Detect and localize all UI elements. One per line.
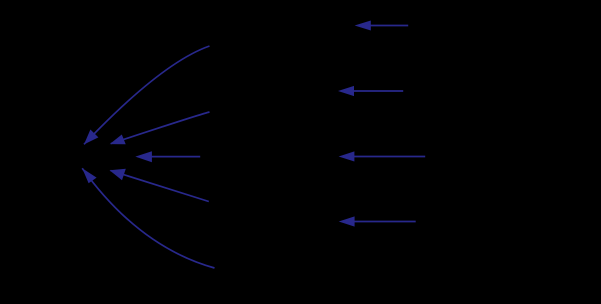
- wire arrow 2 (upper diagonal connector): [111, 112, 210, 144]
- arrowhead 5: [82, 168, 96, 183]
- arrowhead C: [339, 151, 355, 161]
- wire arrow 4 (lower diagonal connector): [111, 171, 209, 202]
- arrowhead 1: [84, 130, 98, 145]
- wire arrow 3 (middle horizontal connector): [150, 156, 200, 158]
- arrowhead 3: [135, 151, 152, 162]
- wire curve arrow 1 (top curved connector): [84, 46, 210, 144]
- arrowhead A: [355, 21, 371, 31]
- wire arrow B (right column, row 2): [353, 90, 403, 92]
- arrowhead D: [339, 216, 355, 226]
- wire arrow D (right column, row 4): [354, 221, 416, 223]
- wire arrow A (right column, row 1): [369, 25, 408, 27]
- arrowhead 2: [110, 135, 126, 145]
- wire arrow C (right column, row 3): [354, 156, 426, 158]
- wire curve arrow 5 (bottom curved connector): [82, 168, 214, 268]
- arrowhead 4: [110, 169, 126, 181]
- arrowhead B: [338, 86, 354, 96]
